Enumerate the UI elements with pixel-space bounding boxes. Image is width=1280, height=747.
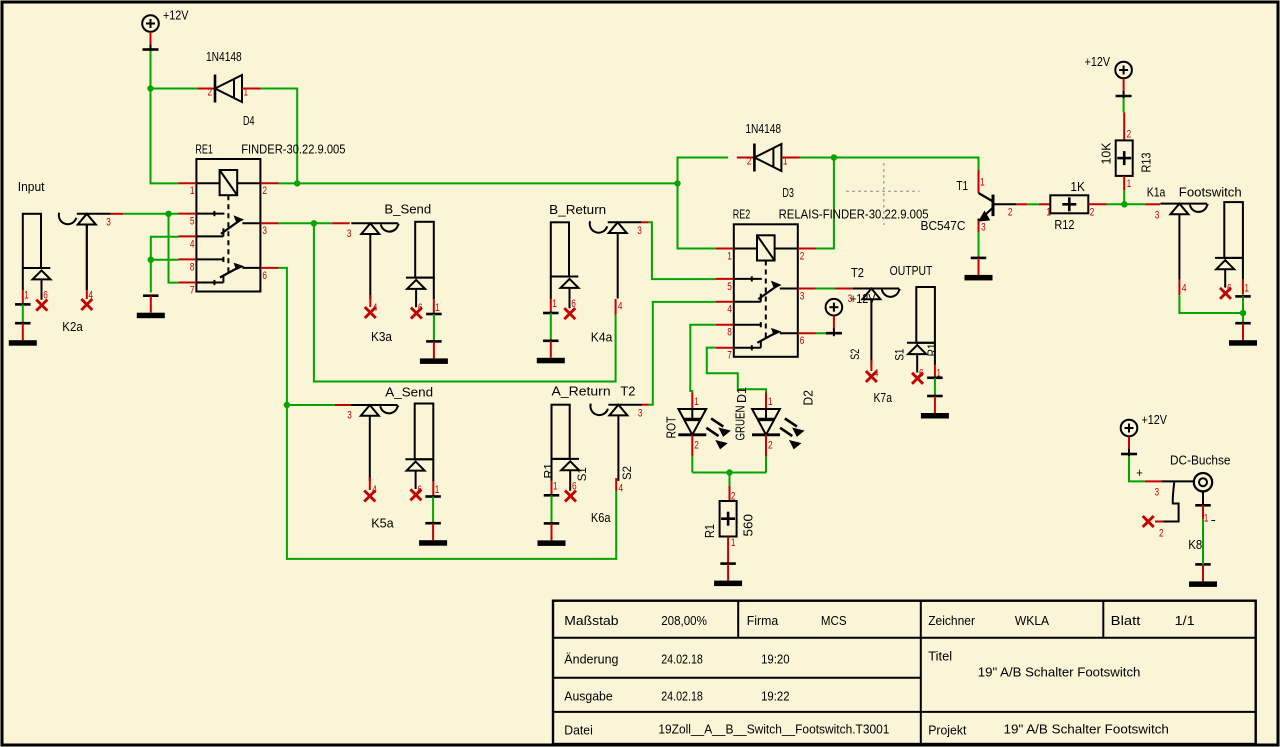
svg-text:1: 1: [435, 484, 440, 496]
svg-text:6: 6: [572, 481, 577, 493]
grey section marker cross: [846, 163, 919, 225]
svg-text:B_Send: B_Send: [384, 201, 431, 216]
svg-text:3: 3: [262, 225, 267, 237]
svg-text:7: 7: [727, 350, 732, 362]
wire K4a tip (pin3) to RE2 pin5: [641, 222, 715, 279]
K4a pin4 wire segment: [616, 299, 623, 315]
svg-text:Titel: Titel: [928, 649, 952, 664]
resistor R1 560: [702, 491, 756, 549]
node junction at +12V / D4: [147, 51, 153, 92]
svg-text:1: 1: [731, 537, 736, 549]
wire A_Send to K6a pin4 (A normal): [287, 405, 616, 559]
K7a pin4 no-connect: [866, 360, 877, 382]
K5a pin1 to ground: [419, 497, 447, 546]
svg-text:D4: D4: [243, 113, 255, 128]
svg-text:RELAIS-FINDER-30.22.9.005: RELAIS-FINDER-30.22.9.005: [779, 207, 929, 222]
svg-text:K3a: K3a: [371, 329, 393, 344]
+12V supply P3 (above R13): [1085, 54, 1132, 99]
wire +12V down to RE1 pin1: [151, 89, 179, 184]
svg-text:-: -: [1211, 512, 1216, 527]
svg-text:T2: T2: [620, 384, 635, 399]
svg-text:OUTPUT: OUTPUT: [890, 263, 933, 278]
K2a label: [62, 319, 83, 334]
svg-text:S2: S2: [620, 466, 634, 480]
svg-text:T2: T2: [851, 265, 864, 280]
svg-text:1: 1: [24, 290, 29, 302]
svg-text:FINDER-30.22.9.005: FINDER-30.22.9.005: [241, 141, 345, 156]
svg-text:R12: R12: [1054, 217, 1074, 232]
svg-text:5: 5: [190, 216, 195, 228]
jack K5a A_Send: [335, 385, 440, 531]
wire D4 cathode to RE1 pin2 / RE2 pin1 net: [261, 89, 678, 187]
svg-text:3: 3: [1155, 486, 1160, 498]
svg-text:1: 1: [783, 155, 788, 167]
svg-text:6: 6: [800, 335, 805, 347]
svg-text:6: 6: [418, 302, 423, 314]
wire K6a tip (pin3) to RE2 pin4: [642, 302, 716, 405]
svg-text:+12V: +12V: [163, 7, 189, 22]
svg-text:BC547C: BC547C: [921, 218, 966, 233]
svg-text:Änderung: Änderung: [564, 651, 618, 666]
svg-text:4: 4: [190, 238, 195, 250]
svg-text:S1: S1: [575, 467, 589, 481]
svg-text:3: 3: [637, 225, 642, 237]
svg-text:3: 3: [347, 410, 352, 422]
jack K1a Footswitch: [1147, 184, 1249, 299]
diode D4 1N4148: [197, 49, 260, 128]
svg-text:Input: Input: [18, 179, 45, 194]
svg-text:24.02.18: 24.02.18: [661, 688, 703, 703]
wire RE1 pin4/pin8 to ground: [148, 237, 179, 293]
svg-text:K8: K8: [1188, 537, 1202, 552]
jack K4a B_Return: [549, 202, 642, 345]
svg-text:3: 3: [800, 290, 805, 302]
svg-text:1: 1: [768, 396, 773, 408]
wire RE2 pin8 to LED D1: [690, 325, 716, 393]
svg-text:3: 3: [638, 408, 643, 420]
svg-text:8: 8: [727, 327, 732, 339]
svg-text:4: 4: [619, 482, 624, 494]
svg-text:1: 1: [1127, 178, 1132, 190]
svg-text:Datei: Datei: [564, 723, 593, 738]
K3a pin1 to ground: [420, 314, 448, 364]
svg-text:2: 2: [1159, 527, 1164, 539]
svg-text:3: 3: [981, 222, 986, 234]
svg-text:1: 1: [552, 298, 557, 310]
svg-text:4: 4: [1182, 283, 1187, 295]
svg-text:D2: D2: [800, 390, 815, 406]
svg-text:5: 5: [727, 281, 732, 293]
svg-text:T1: T1: [956, 178, 968, 193]
svg-text:208,00%: 208,00%: [661, 613, 707, 628]
svg-text:1N4148: 1N4148: [745, 121, 781, 136]
wire P3 to R13: [1124, 98, 1132, 140]
svg-text:24.02.18: 24.02.18: [661, 651, 703, 666]
relay RE2 RELAIS-FINDER-30.22.9.005: [716, 207, 929, 362]
svg-text:2: 2: [800, 250, 805, 262]
svg-text:6: 6: [1227, 283, 1232, 295]
svg-text:R1: R1: [702, 524, 717, 538]
K2a pin4 no-connect: [81, 225, 93, 311]
svg-text:A_Return: A_Return: [552, 384, 611, 399]
svg-text:19:20: 19:20: [761, 651, 790, 666]
svg-text:3: 3: [1155, 210, 1160, 222]
wire B_Send to K4a pin4 (B normal): [314, 223, 616, 381]
svg-text:Firma: Firma: [747, 613, 779, 628]
R1 to ground: [714, 537, 742, 587]
svg-text:+12V: +12V: [1085, 54, 1111, 69]
svg-text:2: 2: [1127, 128, 1132, 140]
svg-text:WKLA: WKLA: [1015, 613, 1050, 628]
svg-text:ROT: ROT: [663, 416, 678, 438]
svg-text:6: 6: [571, 298, 576, 310]
svg-text:19Zoll__A__B__Switch__Footswit: 19Zoll__A__B__Switch__Footswitch.T3001: [658, 721, 889, 736]
svg-text:2: 2: [1090, 207, 1095, 219]
K6a pin1 to ground: [538, 495, 566, 546]
Input label: [18, 179, 45, 194]
svg-text:Ausgabe: Ausgabe: [564, 688, 612, 703]
svg-text:D1: D1: [734, 387, 749, 403]
svg-text:1K: 1K: [1070, 179, 1085, 194]
wire R12 to junction and K1a: [1088, 201, 1160, 221]
svg-text:1: 1: [694, 396, 699, 408]
jack K6a A_Return: [542, 384, 643, 525]
svg-text:1: 1: [1046, 207, 1051, 219]
title block texts: [564, 613, 1194, 738]
svg-text:4: 4: [618, 300, 623, 312]
wire net to D3 and RE2 pin1: [674, 158, 728, 249]
svg-text:RE2: RE2: [733, 207, 751, 222]
+12V supply P4 (DC jack): [1121, 412, 1168, 457]
svg-text:19" A/B Schalter Footswitch: 19" A/B Schalter Footswitch: [978, 664, 1141, 679]
svg-text:1: 1: [190, 185, 195, 197]
wire LED cathodes junction to R1: [692, 456, 766, 501]
K7a pin1 to ground: [921, 378, 949, 419]
svg-text:MCS: MCS: [821, 613, 847, 628]
svg-text:B_Return: B_Return: [549, 202, 606, 217]
svg-text:19" A/B Schalter Footswitch: 19" A/B Schalter Footswitch: [1004, 721, 1169, 736]
svg-text:6: 6: [417, 484, 422, 496]
wire RE1 pin6 to A_Send: [278, 268, 334, 408]
svg-text:1: 1: [435, 302, 440, 314]
wire RE2 pin3 to OUTPUT jack: [816, 289, 853, 306]
wire P4 to DC jack pin3: [1129, 456, 1194, 498]
svg-text:2: 2: [694, 439, 699, 451]
svg-text:R1: R1: [542, 463, 556, 479]
svg-text:560: 560: [740, 514, 755, 537]
svg-text:S2: S2: [848, 348, 862, 359]
svg-text:Projekt: Projekt: [928, 723, 967, 738]
svg-text:2: 2: [1008, 207, 1013, 219]
svg-text:8: 8: [190, 261, 195, 273]
svg-text:K2a: K2a: [62, 319, 83, 334]
K1a pin4 to pin1/ground: [1179, 280, 1246, 317]
input jack K2a: [23, 213, 111, 311]
svg-text:K7a: K7a: [874, 390, 893, 405]
svg-text:6: 6: [262, 270, 267, 282]
svg-text:A_Send: A_Send: [385, 385, 433, 400]
svg-text:S1: S1: [893, 348, 907, 360]
K1a pin1 to ground: [1229, 296, 1257, 345]
svg-text:2: 2: [768, 439, 773, 451]
svg-text:+12V: +12V: [1142, 412, 1168, 427]
svg-text:2: 2: [208, 86, 213, 98]
svg-text:DC-Buchse: DC-Buchse: [1170, 453, 1231, 468]
svg-text:K5a: K5a: [371, 515, 394, 530]
diode D3 1N4148: [737, 121, 800, 200]
svg-text:1N4148: 1N4148: [206, 49, 242, 64]
wire D3 to RE2 pin2 and T1 collector: [800, 154, 979, 248]
K4a pin1 to ground: [537, 313, 565, 363]
svg-text:GRUEN: GRUEN: [732, 406, 747, 441]
svg-text:Zeichner: Zeichner: [928, 613, 975, 628]
wire R13 to junction: [1123, 176, 1125, 204]
svg-text:K1a: K1a: [1147, 184, 1166, 199]
svg-text:K6a: K6a: [591, 510, 611, 525]
wire RE1 pin3 to B_Send: [278, 220, 332, 226]
svg-text:R13: R13: [1138, 153, 1153, 173]
wire T1 base to R12: [1016, 203, 1050, 205]
svg-text:R1: R1: [925, 343, 939, 356]
svg-text:Footswitch: Footswitch: [1179, 184, 1242, 199]
svg-text:Blatt: Blatt: [1111, 613, 1141, 628]
LED D2 GRUEN: [732, 390, 815, 456]
svg-text:1: 1: [553, 481, 558, 493]
+12V supply P1 top left: [142, 7, 189, 52]
svg-text:4: 4: [727, 304, 732, 316]
svg-text:6: 6: [43, 290, 48, 302]
ground below RE1: [137, 296, 165, 319]
K8 pin1 to ground: [1188, 491, 1217, 587]
svg-text:1: 1: [1204, 513, 1209, 525]
svg-text:6: 6: [919, 367, 924, 379]
svg-text:Maßstab: Maßstab: [564, 613, 618, 628]
svg-text:19:22: 19:22: [761, 688, 790, 703]
title block table: [553, 601, 1256, 744]
wire +12V to D4 anode: [151, 88, 198, 90]
svg-text:K4a: K4a: [591, 330, 613, 345]
resistor R12 1K: [1046, 179, 1094, 232]
+12V supply P2 (at RE2 pin6): [826, 291, 876, 336]
wire RE2 pin7 to LED D2: [707, 348, 766, 393]
svg-text:3: 3: [106, 217, 111, 229]
svg-text:D3: D3: [782, 185, 794, 200]
svg-text:1: 1: [1244, 283, 1249, 295]
svg-text:2: 2: [731, 491, 736, 503]
DC socket K8 DC-Buchse: [1143, 453, 1231, 540]
svg-text:2: 2: [747, 155, 752, 167]
resistor R13 10K: [1098, 140, 1153, 189]
svg-text:1: 1: [980, 177, 985, 189]
transistor T1 BC547C: [921, 170, 1017, 234]
svg-text:+: +: [1136, 465, 1143, 480]
svg-text:4: 4: [88, 289, 93, 301]
K3a pin4 no-connect: [365, 295, 376, 318]
T1 emitter to ground: [965, 232, 993, 280]
relay RE1 FINDER-30.22.9.005: [178, 141, 345, 296]
K5a pin4 no-connect: [364, 477, 375, 502]
svg-text:2: 2: [262, 185, 267, 197]
wire RE2 pin6 to +12V P2: [816, 332, 834, 334]
svg-text:10K: 10K: [1098, 142, 1113, 164]
svg-text:RE1: RE1: [195, 141, 213, 156]
LED D1 ROT: [663, 387, 749, 456]
svg-text:1: 1: [727, 250, 732, 262]
wire K2a tip to RE1 pin5/pin7: [111, 211, 179, 283]
svg-text:1/1: 1/1: [1175, 613, 1195, 628]
jack K7a OUTPUT: [848, 263, 941, 405]
K2a pin1 to ground: [9, 304, 37, 345]
jack K3a B_Send: [332, 201, 440, 344]
svg-text:3: 3: [347, 228, 352, 240]
svg-text:7: 7: [190, 284, 195, 296]
svg-text:1: 1: [244, 86, 249, 98]
K6a pin4 wire segment: [616, 478, 623, 494]
